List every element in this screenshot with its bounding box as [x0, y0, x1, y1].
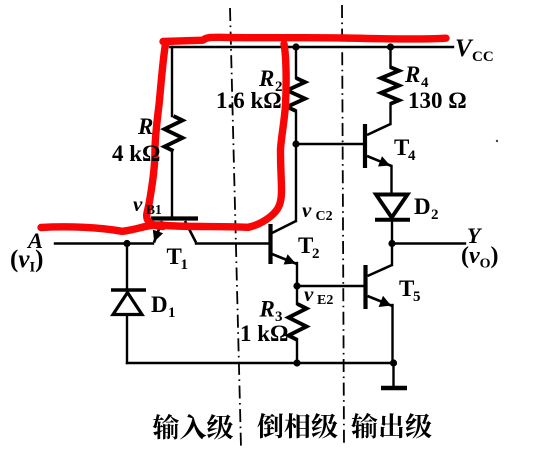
wire output Y line	[392, 242, 465, 244]
wire R2 top	[295, 47, 297, 78]
red annotation stroke along Vcc rail	[163, 37, 446, 41]
wire T1 collector to T2 base	[196, 242, 268, 244]
svg-text:R: R	[259, 297, 275, 322]
wire ground stem	[392, 363, 394, 387]
wire R4 bottom to T4 collector	[389, 104, 391, 124]
svg-text:2: 2	[312, 246, 320, 262]
svg-text:D: D	[151, 292, 168, 317]
resistor R4 130	[381, 67, 399, 104]
stage label output stage	[351, 413, 431, 439]
svg-text:1: 1	[168, 305, 176, 321]
wire R3 bottom	[296, 340, 298, 363]
transistor T2	[271, 221, 298, 264]
svg-text:130 Ω: 130 Ω	[408, 88, 467, 113]
svg-text:2: 2	[431, 207, 439, 223]
node R3-ground rail junction	[293, 359, 300, 366]
wire T4 base	[296, 143, 363, 145]
wire T4 emitter to D2	[390, 166, 392, 194]
wire vE2 to T5 base	[297, 285, 363, 287]
node Vcc-R4 junction	[387, 43, 394, 50]
svg-text:E2: E2	[317, 293, 333, 308]
node vC2 (R2/T2 collector/T4 base)	[292, 140, 299, 147]
node Y output (D2/T5 collector)	[388, 240, 395, 247]
wire D1 top	[126, 244, 128, 289]
wire Vcc rail	[170, 46, 453, 48]
resistor R2 1.6k	[287, 78, 305, 111]
wire R2 bottom / T2 collector riser	[295, 111, 297, 221]
node Vcc-R2 junction	[292, 43, 299, 50]
diode D1	[111, 290, 146, 315]
svg-text:v: v	[133, 192, 143, 216]
wire ground rail	[127, 362, 394, 364]
wire input A line	[55, 242, 153, 244]
transistor T1	[151, 219, 198, 243]
svg-text:1.6 kΩ: 1.6 kΩ	[216, 88, 282, 113]
wire D1 bottom	[126, 316, 128, 363]
svg-text:D: D	[414, 194, 431, 219]
wire T5 emitter drop	[391, 305, 393, 363]
wire R top	[171, 47, 173, 116]
svg-text:5: 5	[413, 289, 421, 305]
svg-text:R: R	[137, 114, 153, 139]
stray ink speck	[496, 140, 498, 142]
wire R3 top	[296, 286, 298, 304]
svg-text:CC: CC	[472, 49, 494, 65]
node input A / D1 junction	[123, 240, 130, 247]
diode D2	[375, 195, 410, 220]
resistor R 4k	[165, 116, 183, 151]
stage separator dashed line 2	[342, 5, 344, 445]
red annotation stroke down left past R	[147, 44, 166, 227]
wire R4 top	[389, 47, 391, 67]
svg-text:1 kΩ: 1 kΩ	[240, 321, 288, 346]
svg-text:v: v	[304, 282, 314, 306]
red annotation stroke along input/T1 base region	[41, 225, 248, 231]
svg-text:v: v	[302, 198, 312, 222]
resistor R3 1k	[289, 304, 307, 340]
stage label phase splitter stage	[257, 413, 337, 438]
ground	[381, 386, 407, 391]
transistor T4	[365, 124, 392, 168]
wire R bottom to T1 base	[171, 151, 173, 217]
transistor T5	[366, 265, 393, 309]
svg-text:(vI): (vI)	[10, 246, 43, 276]
stage label input stage	[153, 414, 233, 440]
svg-text:C2: C2	[316, 209, 333, 224]
stage separator dashed line 1	[230, 8, 241, 447]
wire T2 emitter drop	[296, 263, 298, 286]
node vE2 (T2 emitter/R3/T5 base)	[293, 282, 300, 289]
svg-text:4 kΩ: 4 kΩ	[112, 141, 160, 166]
node T5 emitter-ground junction	[390, 359, 397, 366]
svg-text:B1: B1	[146, 202, 162, 217]
red annotation stroke down past R2	[248, 44, 286, 227]
svg-text:R: R	[404, 62, 420, 87]
wire D2 to output node and T5 collector	[391, 220, 393, 265]
svg-text:4: 4	[408, 148, 416, 164]
svg-text:1: 1	[181, 257, 189, 273]
